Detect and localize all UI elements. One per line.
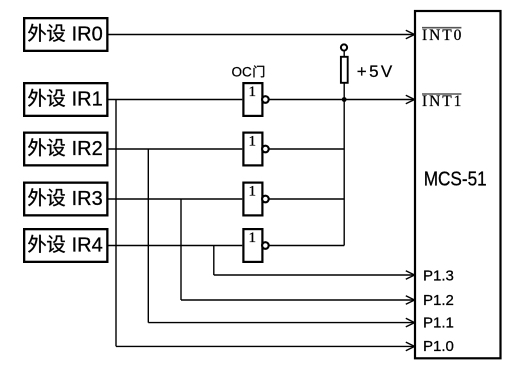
svg-text:P1.1: P1.1 (423, 315, 454, 332)
svg-text:1: 1 (248, 183, 256, 199)
svg-text:P1.2: P1.2 (423, 292, 454, 309)
svg-text:P1.0: P1.0 (423, 338, 454, 355)
svg-text:IR0: IR0 (72, 24, 103, 46)
svg-text:MCS-51: MCS-51 (424, 168, 487, 190)
svg-text:+5V: +5V (357, 62, 393, 81)
svg-text:P1.3: P1.3 (423, 267, 454, 284)
svg-text:IR2: IR2 (72, 138, 103, 160)
svg-text:IR1: IR1 (72, 89, 103, 111)
svg-text:1: 1 (248, 230, 256, 246)
svg-text:IR3: IR3 (72, 188, 103, 210)
svg-text:OC: OC (232, 64, 253, 79)
svg-text:IR4: IR4 (72, 235, 103, 257)
svg-text:1: 1 (248, 133, 256, 149)
svg-text:1: 1 (248, 84, 256, 100)
